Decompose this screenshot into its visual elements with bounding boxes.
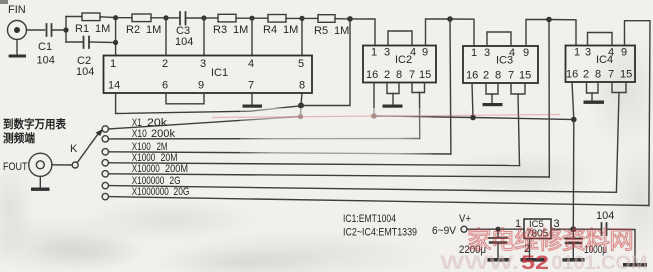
svg-text:7: 7 [508,70,514,82]
svg-text:9: 9 [523,47,529,59]
watermark red line [212,115,560,118]
svg-text:9: 9 [621,47,627,59]
terminal V+ 6~9V [461,226,467,232]
wire IC1 pin14 [116,93,301,114]
node P1 [495,227,500,232]
wire row X100 [109,152,451,154]
node G [447,16,453,22]
svg-text:到数字万用表: 到数字万用表 [3,117,66,131]
wire C104 to ground [607,229,636,263]
svg-text:9: 9 [422,47,428,59]
ground (1000u) [563,258,585,262]
wire row X1000000 [109,197,649,206]
wire X1 riser [300,106,303,118]
faded scan band [240,108,432,160]
switch K common [72,162,78,168]
ground (FIN) [9,55,26,58]
wire IC1 pin8 stub [301,93,302,106]
capacitor C1 [47,24,52,36]
connector FOUT [29,153,73,187]
wire IC4 pins2-8 to ground [587,82,599,93]
wire P2 to C104 [573,228,601,230]
svg-text:104: 104 [76,66,94,78]
svg-text:20G: 20G [174,186,190,198]
wire R3 to node4 [236,17,252,19]
wire IC1 pins 6-9 bracket [166,93,204,104]
node input vertical [63,17,68,43]
wire node4 to R4 [252,17,268,19]
svg-text:X1000000: X1000000 [132,186,169,198]
wire V+ rail [374,116,574,120]
svg-text:5: 5 [298,58,304,70]
node F [347,16,353,22]
switch K arm [78,129,104,162]
node V+ c [571,117,577,123]
svg-text:14: 14 [108,80,120,92]
node V+ b [470,115,476,121]
svg-text:V+: V+ [459,213,471,225]
ground (IC2) [383,105,403,108]
ground (2200u) [488,258,510,262]
wire IC3 pins3-4 bracket [487,32,511,46]
wire IC3 pins2-8 to ground [486,83,498,94]
wire C1 to node [52,29,67,31]
wire row X100000 [109,186,617,193]
svg-text:1: 1 [110,58,116,70]
svg-text:52: 52 [521,252,549,272]
svg-text:2: 2 [483,70,489,82]
ground (IC3) [483,103,503,106]
resistor R3 [218,14,236,22]
switch contact X10 [102,136,108,142]
divider IC4 [566,46,636,83]
wire FIN to C1 [27,29,45,31]
svg-text:2: 2 [583,69,589,81]
connector FIN [8,21,27,55]
wire node3 to R3 [204,17,218,19]
wire IC1 pin7 to ground [251,93,253,105]
switch contact X100000 [102,182,108,188]
svg-text:X10000: X10000 [132,163,160,175]
svg-text:IC3: IC3 [496,55,513,67]
wire node G down to row X100 [449,19,452,154]
wire R2 to node2 [151,17,166,19]
svg-text:3: 3 [585,47,591,59]
op-amp IC1 [104,56,313,94]
svg-text:15: 15 [419,69,431,81]
wire node H to IC4 pin1 [549,20,576,46]
svg-text:8: 8 [299,80,305,92]
switch contact X1000000 [102,193,108,199]
wire C3 to node3 [186,17,205,19]
svg-text:8: 8 [495,70,501,82]
wire node2 to C3 [166,17,179,19]
svg-text:测频端: 测频端 [3,131,35,145]
svg-text:IC2~IC4:EMT1339: IC2~IC4:EMT1339 [343,227,417,239]
svg-text:R3: R3 [213,24,227,36]
resistor R4 [268,15,286,23]
wire node to C2 [66,41,83,43]
svg-text:2: 2 [162,58,168,70]
wire row X10000 [109,174,550,177]
svg-text:R5: R5 [314,25,328,37]
wire V+ input [467,228,524,230]
wire node F to IC2 pin 1 [350,19,375,46]
svg-text:15: 15 [519,70,531,82]
wire IC3 pins7-15 to row X1000 [511,83,525,94]
svg-text:6~9V: 6~9V [432,225,457,237]
svg-text:104: 104 [596,210,614,222]
svg-text:IC1: IC1 [211,67,228,79]
node pin8 junction [298,103,304,109]
svg-text:R1: R1 [75,23,89,35]
divider IC3 [463,46,538,83]
svg-text:7: 7 [248,80,254,92]
svg-text:200M: 200M [165,163,188,175]
node 4 [249,16,254,56]
wire IC4 pins7-15 to row X100000 [612,82,626,93]
svg-text:1M: 1M [283,24,298,36]
node 1 vertical to IC1 pin1 [113,15,118,55]
switch contact X10000 [102,171,108,177]
divider IC2 [363,46,436,83]
capacitor C 2200u [489,229,507,258]
svg-text:104: 104 [175,36,193,48]
wire IC3 pin9 to node H [526,20,549,47]
wire IC2 pins2-8 to ground [387,83,399,94]
node 3 [201,15,206,55]
svg-text:FOUT: FOUT [3,161,28,173]
svg-text:WWW.: WWW. [440,252,519,272]
svg-text:7: 7 [409,69,415,81]
svg-text:1: 1 [471,47,477,59]
svg-text:C1: C1 [38,41,52,53]
ground (FOUT) [31,188,50,191]
wire IC2 pin9 to node G [426,19,451,46]
capacitor C2 [84,37,90,49]
switch contact X1 [102,126,108,132]
resistor R2 [132,14,151,22]
ground (IC1 pin7) [243,105,263,108]
capacitor C 1000u [565,229,582,258]
svg-text:家电维修资料网: 家电维修资料网 [467,227,633,255]
svg-text:1M: 1M [233,24,248,36]
svg-text:9: 9 [198,80,204,92]
node V+ a [371,113,377,119]
svg-text:K: K [70,143,78,155]
svg-text:200k: 200k [151,128,175,140]
ground (IC5) [521,258,546,262]
svg-text:R2: R2 [126,24,140,36]
node P2 [570,226,576,232]
wire R1 to node1 [100,16,116,19]
wire IC2 pins3-4 bracket [388,31,412,46]
wire row X10 [109,138,420,140]
svg-text:1M: 1M [95,23,110,35]
node H [546,17,552,23]
resistor R1 [82,13,100,21]
svg-text:16: 16 [366,69,378,81]
capacitor C3 [180,12,186,25]
wire node F down to IC1 pin8 junction [301,19,350,106]
svg-text:1M: 1M [334,25,349,37]
svg-text:3: 3 [200,58,206,70]
svg-text:1: 1 [371,47,377,59]
svg-text:104: 104 [37,55,55,67]
wire row X1000 [109,163,520,166]
svg-text:IC4: IC4 [596,54,613,66]
switch contact X1000 [102,160,108,166]
node X1 join [298,114,303,119]
svg-text:7: 7 [608,69,614,81]
svg-text:15: 15 [620,69,632,81]
wire row X1 [109,117,301,130]
svg-text:16: 16 [566,69,578,81]
svg-text:8: 8 [396,69,402,81]
resistor R5 [318,15,335,23]
wire IC2 pins7-15 to row X10 [412,83,425,93]
wire C2 to node1 vertical [89,41,116,44]
wire V+ riser [572,120,575,230]
switch contact X100 [102,149,108,155]
wire node G to IC3 pin1 [450,19,474,46]
wire R5 to node F (feedback node) [335,18,350,20]
svg-text:1M: 1M [146,24,161,36]
node 5 [299,16,304,56]
wire IC3 pin16 to V+ rail [472,83,473,118]
svg-text:X10: X10 [132,128,147,140]
capacitor C 104 [602,223,607,235]
svg-text:16: 16 [466,70,478,82]
watermark url [440,252,648,272]
svg-text:6: 6 [162,80,168,92]
svg-text:R4: R4 [263,24,277,36]
svg-text:IC1:EMT1004: IC1:EMT1004 [343,213,396,225]
wire R4 to node5 [286,17,302,19]
node 2 [163,15,168,55]
wire IC4 pins3-4 bracket [588,33,613,46]
svg-text:0101.COM: 0101.COM [552,252,648,272]
svg-text:FIN: FIN [8,4,26,16]
wire IC4 pin16 to V+ rail [572,82,574,120]
ground (right) [623,263,647,267]
wire node5 to R5 [302,17,318,19]
ground (IC4) [584,101,605,104]
svg-text:8: 8 [595,69,601,81]
wire IC2 pin16 to V+ rail [373,83,375,117]
svg-text:3: 3 [384,47,390,59]
svg-text:1: 1 [574,47,580,59]
wire IC5 pin2 to ground [529,239,531,259]
wire IC4 pin9 to row X1000000 [625,21,651,206]
svg-text:IC2: IC2 [395,54,412,66]
svg-text:2: 2 [384,69,390,81]
regulator IC5 7805 [524,219,551,239]
wire node H down to row X10000 [548,20,550,178]
wire to R1 [66,16,82,18]
svg-text:4: 4 [248,58,254,70]
wire node1 to R2 [116,17,132,19]
wire IC5 pin3 to node P2 [551,228,573,230]
svg-text:3: 3 [484,47,490,59]
